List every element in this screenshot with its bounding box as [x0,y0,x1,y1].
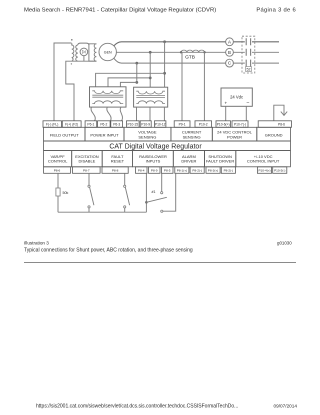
terminal P10-5(-) [273,167,287,174]
svg-text:P8-1(+): P8-1(+) [177,169,187,173]
terminal P8-6 ground [258,121,291,128]
svg-text:SENSING: SENSING [138,134,156,139]
rotating rectifier U1 (circle with diode) [80,48,88,56]
svg-text:Página 3 de 6: Página 3 de 6 [256,8,296,14]
wire H3 horizontal to T1 [120,82,136,86]
svg-text:P8-2(-): P8-2(-) [192,169,202,173]
section 24 VDC CONTROL POWER [212,127,256,141]
terminal P10-15 [127,121,140,128]
svg-text:P10-7(-): P10-7(-) [234,123,246,127]
section VAR/PF CONTROL [44,151,72,167]
terminal P10-12 [155,121,166,128]
wire T1 secondary lead 3 [120,107,122,121]
svg-text:09/07/2014: 09/07/2014 [274,404,298,409]
svg-text:P10-12: P10-12 [155,123,166,127]
svg-text:FIELD OUTPUT: FIELD OUTPUT [50,133,79,138]
terminal P8-2(-) [190,167,204,174]
wire T1 secondary lead 2 [107,107,111,121]
svg-text:P10-6(+): P10-6(+) [217,123,230,127]
svg-text:C: C [228,61,231,66]
svg-text:F(-) (FL): F(-) (FL) [46,123,58,127]
svg-text:Media Search - RENR7941 - Cate: Media Search - RENR7941 - Caterpillar Di… [24,8,216,14]
svg-text:Illustration 3: Illustration 3 [24,241,49,246]
svg-text:P10-4(+): P10-4(+) [258,169,270,173]
switch S2 (fault reset) [124,173,126,185]
svg-text:P6-3: P6-3 [113,123,120,127]
terminal P6-2 [98,121,111,128]
section ALARM DRIVER [173,151,204,167]
svg-text:P8-6: P8-6 [54,169,61,173]
svg-text:P8-9: P8-9 [151,169,158,173]
node B tap [149,51,152,54]
node GTB left [180,51,182,53]
svg-text:CONTROL: CONTROL [48,159,68,164]
transformer T2 primary winding [136,91,165,94]
switch S1 (excitation disable) [88,173,90,185]
terminal P9-2 [195,121,212,128]
svg-text:P8-7: P8-7 [83,169,90,173]
battery 24 Vdc box [221,88,252,106]
transformer T1 core [92,95,123,97]
polarity dot top [71,39,73,41]
wire T2 secondary lead 3 [163,107,165,121]
breaker contact bars phase B [246,49,250,56]
wire ground lead [274,105,284,121]
terminal P8-6 varpf [44,167,71,174]
transformer T1 primary winding [92,91,123,94]
resistor 50k [56,188,60,196]
svg-text:P8-5: P8-5 [164,169,171,173]
terminal circle C [226,59,234,67]
breaker contact bars phase A [246,38,250,45]
svg-text:GROUND: GROUND [265,133,283,138]
breaker contact bars phase C [246,60,250,67]
node C tap [135,62,138,65]
wire T2 secondary lead 2 [149,107,151,121]
horizontal rule under caption [24,262,296,264]
main field bracket [89,44,97,61]
wire exciter armature to rectifier bridge (arc over) [78,43,89,45]
node GTB right [203,51,205,53]
section EXCITATION DISABLE [72,151,103,167]
phase line A [114,42,279,46]
breaker 52 dashed outline [242,36,255,73]
wire tap C vertical [136,63,138,82]
transformer T2 box [134,87,168,107]
svg-text:P8-8: P8-8 [112,169,119,173]
banner CAT Digital Voltage Regulator [44,141,291,151]
wire rectifier stub [83,56,85,62]
exciter field coil [72,43,74,61]
wire tap A vertical [164,42,166,87]
terminal P10-4(+) [257,167,271,174]
wire GTB lead 2 [203,52,205,121]
terminal circle A [226,38,234,46]
switch #1 common wire [145,173,147,212]
terminal P8-8 [102,167,128,174]
diode glyph inside rectifier [82,50,85,53]
node H1 junction [163,72,166,75]
svg-text:P10-15: P10-15 [127,123,138,127]
wire H2 horizontal to T1 [108,78,150,87]
node switch #1 pivot [145,201,148,204]
wire battery positive lead [225,106,227,121]
svg-text:CONTROL INPUT: CONTROL INPUT [247,159,280,164]
svg-text:SENSING: SENSING [183,134,201,139]
terminal P10-7(-) [232,121,248,128]
bottom rail wire [58,211,146,213]
exciter armature coil [76,45,78,61]
wire raise contact [161,173,163,191]
wire field F(+) lead [66,61,97,121]
switch #1 blade [146,197,166,202]
node H3 junction [135,81,138,84]
svg-text:P8-6: P8-6 [278,123,285,127]
svg-text:P9-1: P9-1 [179,123,186,127]
terminal P8-3(+) [206,167,220,174]
ground arrowhead [281,112,287,116]
terminal P8-1(+) [175,167,189,174]
terminal P8-4 [136,167,148,174]
terminal P6-1 [85,121,97,128]
svg-text:P10-2: P10-2 [199,123,208,127]
svg-text:DRIVER: DRIVER [181,159,196,164]
wire tap B vertical [149,52,151,87]
section GROUND [257,127,291,141]
node H2 junction [149,77,152,80]
terminal circle B [226,48,234,56]
svg-text:P10-9: P10-9 [141,123,150,127]
polarity dot bottom [71,63,72,64]
svg-text:F(+) (F2): F(+) (F2) [65,123,78,127]
section SHUTDOWN FAULT DRIVER [205,151,236,167]
transformer T2 core [136,96,165,98]
main field coil [94,44,96,61]
section FAULT RESET [102,151,132,167]
section VOLTAGE SENSING [124,127,171,141]
terminal P10-6(+) [216,121,231,128]
breaker label 52 [246,67,252,72]
wire T1 secondary lead 1 [91,107,95,121]
svg-text:RESET: RESET [111,159,125,164]
terminal F(-)(FL) [43,121,61,128]
terminal P10-9 [140,121,151,128]
phase line C [114,58,279,63]
svg-text:+: + [224,100,227,105]
wire GTB lead 1 [181,52,183,121]
wire field F(-) lead [54,43,72,121]
section CURRENT SENSING [171,127,212,141]
transformer T1 box [90,87,127,107]
svg-text:INPUTS: INPUTS [146,159,161,164]
svg-text:DISABLE: DISABLE [78,159,95,164]
current transformer GTB winding [181,50,205,52]
terminal F(+)(F2) [62,121,81,128]
svg-text:50k: 50k [63,191,69,195]
wire H1 horizontal to T1 [96,73,165,87]
svg-text:24 Vdc: 24 Vdc [230,94,243,99]
terminal P8-2(-) b [221,167,235,174]
section +/-10 VDC CONTROL INPUT [236,151,291,167]
svg-text:POWER INPUT: POWER INPUT [90,133,119,138]
svg-text:P6-2: P6-2 [100,123,107,127]
generator GEN circle [99,43,116,60]
wire T2 secondary lead 1 [136,107,138,121]
terminal P9-1 [174,121,190,128]
svg-text:CAT Digital Voltage Regulator: CAT Digital Voltage Regulator [109,144,202,151]
svg-text:B: B [228,50,231,55]
terminal P8-5 [162,167,174,174]
svg-text:P8-3(+): P8-3(+) [208,169,218,173]
svg-text:g01030: g01030 [277,241,292,246]
wire lower contact [163,173,176,211]
phase line B [116,51,279,53]
transformer T1 secondary winding [92,101,123,104]
svg-text:GTB: GTB [185,54,195,60]
svg-text:https://sis2001.cat.com/sisweb: https://sis2001.cat.com/sisweb/servlet/c… [36,404,238,410]
svg-text:P8-4: P8-4 [138,169,145,173]
transformer T2 secondary winding [136,101,165,104]
svg-text:52: 52 [247,68,251,72]
section FIELD OUTPUT [44,127,85,141]
section POWER INPUT [85,127,124,141]
terminal P8-9 [149,167,161,174]
node A tap [163,40,166,43]
terminal P6-3 [111,121,123,128]
svg-text:Typical connections for Shunt: Typical connections for Shunt power, ABC… [24,248,193,254]
wire battery negative lead [245,106,247,121]
terminal P8-7 [73,167,101,174]
svg-text:POWER: POWER [227,134,242,139]
svg-text:−: − [246,100,249,106]
svg-text:A: A [228,39,231,44]
svg-text:FAULT DRIVER: FAULT DRIVER [206,159,234,164]
svg-text:#1: #1 [152,190,156,194]
svg-text:P6-1: P6-1 [87,123,94,127]
svg-text:P10-5(-): P10-5(-) [274,169,285,173]
wire potentiometer drop [57,173,59,212]
svg-text:P8-2(-): P8-2(-) [224,169,234,173]
svg-text:GEN: GEN [104,50,112,54]
section RAISE/LOWER INPUTS [133,151,174,167]
